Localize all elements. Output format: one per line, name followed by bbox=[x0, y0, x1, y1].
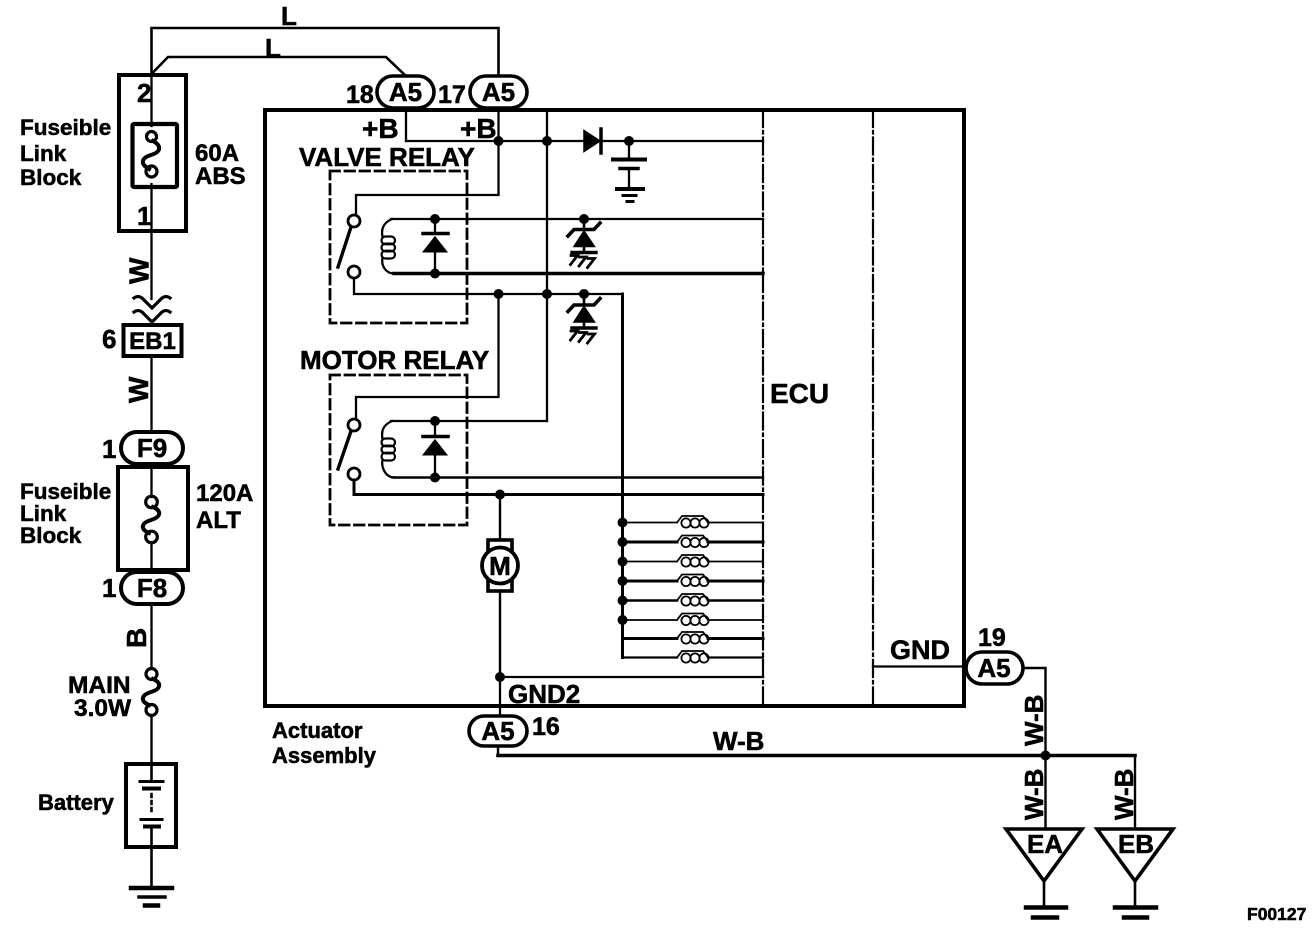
junction block EB1 bbox=[124, 325, 182, 356]
fusible link block 2 (120A ALT) box bbox=[118, 467, 188, 570]
wire L lower from fusible link to A5-18 bbox=[152, 57, 407, 76]
fusible link block 1 (60A ABS) box bbox=[119, 75, 186, 231]
svg-text:A5: A5 bbox=[389, 77, 422, 107]
wire GND2 to connector A5-16 bbox=[499, 677, 501, 717]
svg-text:GND2: GND2 bbox=[508, 679, 580, 709]
svg-text:17: 17 bbox=[438, 81, 466, 109]
valve relay coil bbox=[382, 219, 392, 237]
wire motor to GND2 bbox=[499, 591, 501, 677]
solenoid coil row 8 bbox=[623, 656, 764, 658]
svg-text:18: 18 bbox=[346, 81, 374, 109]
svg-text:EB1: EB1 bbox=[129, 328, 176, 355]
node +B at A5-17 bbox=[494, 136, 504, 146]
wire from A5-18 into box bbox=[405, 108, 407, 141]
wire MAIN fuse to battery bbox=[150, 715, 152, 764]
wire to EB ground point bbox=[1134, 756, 1136, 830]
svg-text:A5: A5 bbox=[481, 716, 514, 746]
wire inside block 1 bbox=[150, 75, 152, 231]
svg-text:ALT: ALT bbox=[196, 507, 241, 534]
connector A5 pin 19 bbox=[966, 652, 1023, 684]
ground (EB) bbox=[1115, 905, 1156, 910]
connector F9 bbox=[121, 432, 183, 464]
node GND2 bbox=[495, 672, 505, 682]
node +B at capacitor bbox=[624, 136, 634, 146]
node switch output to feed line bbox=[542, 289, 552, 299]
wire solenoid feed bus bbox=[621, 294, 624, 658]
ground point EB triangle bbox=[1097, 829, 1173, 881]
ground point EA triangle bbox=[1006, 829, 1082, 881]
wire valve coil bottom to ECU bbox=[394, 272, 763, 275]
node switch output to motor relay bbox=[494, 289, 504, 299]
battery bbox=[126, 764, 176, 847]
svg-text:19: 19 bbox=[978, 624, 1006, 652]
wire GND2 to ECU bbox=[500, 676, 763, 678]
wire valve switch output bbox=[354, 278, 623, 294]
connector A5 pin 16 bbox=[469, 716, 527, 746]
wire valve coil top to ECU bbox=[391, 218, 763, 220]
svg-text:W-B: W-B bbox=[1109, 769, 1139, 820]
svg-text:1: 1 bbox=[102, 434, 116, 464]
svg-text:ECU: ECU bbox=[770, 378, 829, 409]
svg-text:F8: F8 bbox=[137, 573, 167, 603]
node motor branch bbox=[495, 490, 505, 500]
svg-text:VALVE RELAY: VALVE RELAY bbox=[299, 142, 475, 172]
svg-text:B: B bbox=[121, 628, 152, 648]
wire to motor bbox=[499, 495, 501, 541]
wire L upper from fusible link to A5-17 bbox=[152, 28, 499, 76]
solenoid coil row 6 bbox=[623, 614, 764, 626]
solenoid coil row 2 bbox=[623, 541, 764, 544]
diode D3 bbox=[584, 131, 600, 152]
solenoid coil row 3 bbox=[623, 555, 764, 567]
svg-text:Assembly: Assembly bbox=[272, 743, 377, 768]
wire from A5-17 into box bbox=[497, 108, 499, 141]
wire W from EB1 to F9 bbox=[150, 356, 152, 433]
svg-text:L: L bbox=[281, 1, 297, 31]
svg-text:W-B: W-B bbox=[1019, 769, 1049, 820]
svg-text:EB: EB bbox=[1118, 829, 1154, 859]
svg-text:M: M bbox=[489, 551, 511, 581]
node valve coil top bbox=[430, 214, 440, 224]
wire ECU GND to connector bbox=[873, 665, 966, 667]
wire +B to valve relay switch bbox=[356, 141, 499, 215]
wire valve output to motor relay switch bbox=[356, 294, 499, 419]
wire EA to ground bbox=[1043, 881, 1046, 906]
wire B from F8 to MAIN fuse bbox=[150, 604, 152, 669]
svg-text:16: 16 bbox=[532, 713, 560, 741]
valve relay dashed box bbox=[330, 171, 467, 323]
fusible link element 120A bbox=[143, 496, 159, 543]
motor relay flyback diode D2 bbox=[434, 421, 436, 478]
capacitor C1 bbox=[628, 141, 630, 157]
motor relay switch bbox=[348, 419, 360, 431]
svg-text:Fuseible: Fuseible bbox=[20, 115, 111, 140]
svg-text:F00127: F00127 bbox=[1247, 904, 1306, 924]
svg-text:Link: Link bbox=[20, 141, 67, 166]
svg-text:W: W bbox=[124, 257, 155, 284]
wire inside block 2 bbox=[150, 464, 152, 572]
zener diode Z2 bbox=[579, 289, 589, 299]
fuse MAIN 3.0W bbox=[143, 669, 159, 716]
svg-text:A5: A5 bbox=[977, 653, 1010, 683]
svg-text:Actuator: Actuator bbox=[272, 718, 363, 743]
wire motor relay switch output bbox=[354, 480, 763, 495]
node +B at feed line bbox=[542, 136, 552, 146]
zener diode Z1 bbox=[579, 214, 589, 224]
motor relay coil bbox=[382, 421, 392, 439]
svg-text:+B: +B bbox=[460, 113, 497, 144]
wire to EA ground point bbox=[1044, 756, 1046, 830]
svg-text:ABS: ABS bbox=[195, 163, 246, 190]
wire motor coil bottom to ECU bbox=[394, 476, 763, 478]
svg-text:6: 6 bbox=[102, 324, 116, 354]
node motor coil bottom bbox=[430, 473, 440, 483]
svg-text:F9: F9 bbox=[137, 433, 167, 463]
svg-text:120A: 120A bbox=[196, 480, 253, 507]
node motor coil top bbox=[430, 416, 440, 426]
svg-text:1: 1 bbox=[137, 201, 151, 231]
wire A5-16 down to W-B bus bbox=[497, 746, 499, 756]
fusible link element 60A bbox=[133, 124, 178, 187]
solenoid coil row 7 bbox=[623, 637, 764, 640]
wire W from block1 to EB1 bbox=[150, 231, 152, 299]
wire W-B ground bus bbox=[498, 754, 1135, 758]
wire EB to ground bbox=[1134, 881, 1137, 906]
svg-text:EA: EA bbox=[1027, 829, 1063, 859]
ground (EA) bbox=[1026, 905, 1066, 910]
svg-text:W-B: W-B bbox=[1019, 695, 1049, 746]
connector F8 bbox=[121, 572, 183, 604]
svg-text:+B: +B bbox=[362, 113, 399, 144]
wire motor coil top to feed bbox=[391, 420, 547, 422]
svg-text:GND: GND bbox=[890, 635, 950, 665]
svg-text:2: 2 bbox=[137, 78, 151, 108]
svg-text:W-B: W-B bbox=[713, 726, 764, 756]
svg-text:1: 1 bbox=[102, 573, 116, 603]
wire A5-19 to W-B bus bbox=[1023, 668, 1046, 756]
svg-text:W: W bbox=[123, 376, 154, 403]
motor M bbox=[488, 540, 512, 551]
valve relay flyback diode D1 bbox=[434, 219, 436, 274]
svg-text:L: L bbox=[265, 33, 281, 63]
ground (battery) bbox=[131, 886, 172, 891]
wire battery to ground bbox=[150, 847, 153, 887]
svg-text:Block: Block bbox=[20, 523, 82, 548]
node W-B junction bbox=[1041, 751, 1051, 761]
svg-text:Battery: Battery bbox=[38, 790, 115, 815]
ground (capacitor) bbox=[617, 187, 643, 191]
svg-text:MOTOR RELAY: MOTOR RELAY bbox=[300, 345, 489, 375]
node valve coil bottom bbox=[430, 269, 440, 279]
motor relay dashed box bbox=[330, 375, 467, 525]
svg-text:Block: Block bbox=[20, 165, 82, 190]
solenoid coil row 4 bbox=[623, 580, 764, 583]
ECU middle border bbox=[872, 110, 874, 706]
wire +B rail bbox=[406, 140, 763, 142]
valve relay switch bbox=[348, 215, 360, 227]
connector chevrons above EB1 bbox=[134, 297, 170, 309]
solenoid coil row 1 bbox=[623, 516, 764, 528]
svg-text:3.0W: 3.0W bbox=[74, 695, 132, 722]
solenoid coil row 5 bbox=[623, 599, 764, 602]
ECU left border bbox=[762, 110, 764, 706]
svg-text:A5: A5 bbox=[482, 77, 515, 107]
actuator assembly box bbox=[265, 110, 964, 706]
wire vertical feed to motor relay coil bbox=[546, 112, 548, 421]
